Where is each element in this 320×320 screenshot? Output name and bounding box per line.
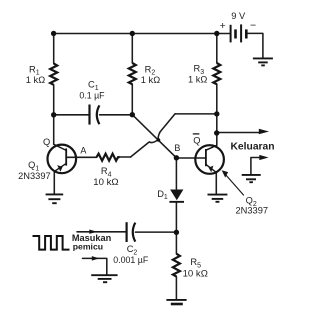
svg-text:+: +	[220, 20, 226, 32]
svg-text:10 kΩ: 10 kΩ	[183, 268, 208, 279]
svg-text:pemicu: pemicu	[73, 241, 103, 251]
svg-text:0.001 µF: 0.001 µF	[113, 255, 149, 265]
svg-text:0.1 µF: 0.1 µF	[79, 91, 105, 101]
svg-text:1 kΩ: 1 kΩ	[188, 75, 207, 85]
svg-text:Q: Q	[43, 137, 50, 147]
svg-text:Keluaran: Keluaran	[231, 141, 275, 152]
svg-text:9 V: 9 V	[231, 11, 246, 21]
svg-text:1 kΩ: 1 kΩ	[141, 75, 160, 85]
svg-text:−: −	[250, 20, 256, 32]
svg-text:10 kΩ: 10 kΩ	[93, 177, 118, 188]
svg-text:B: B	[174, 143, 180, 153]
svg-text:2N3397: 2N3397	[18, 171, 51, 181]
svg-text:A: A	[80, 146, 86, 156]
svg-text:1 kΩ: 1 kΩ	[26, 75, 45, 85]
svg-text:Q: Q	[193, 135, 200, 145]
svg-text:2N3397: 2N3397	[236, 206, 269, 216]
